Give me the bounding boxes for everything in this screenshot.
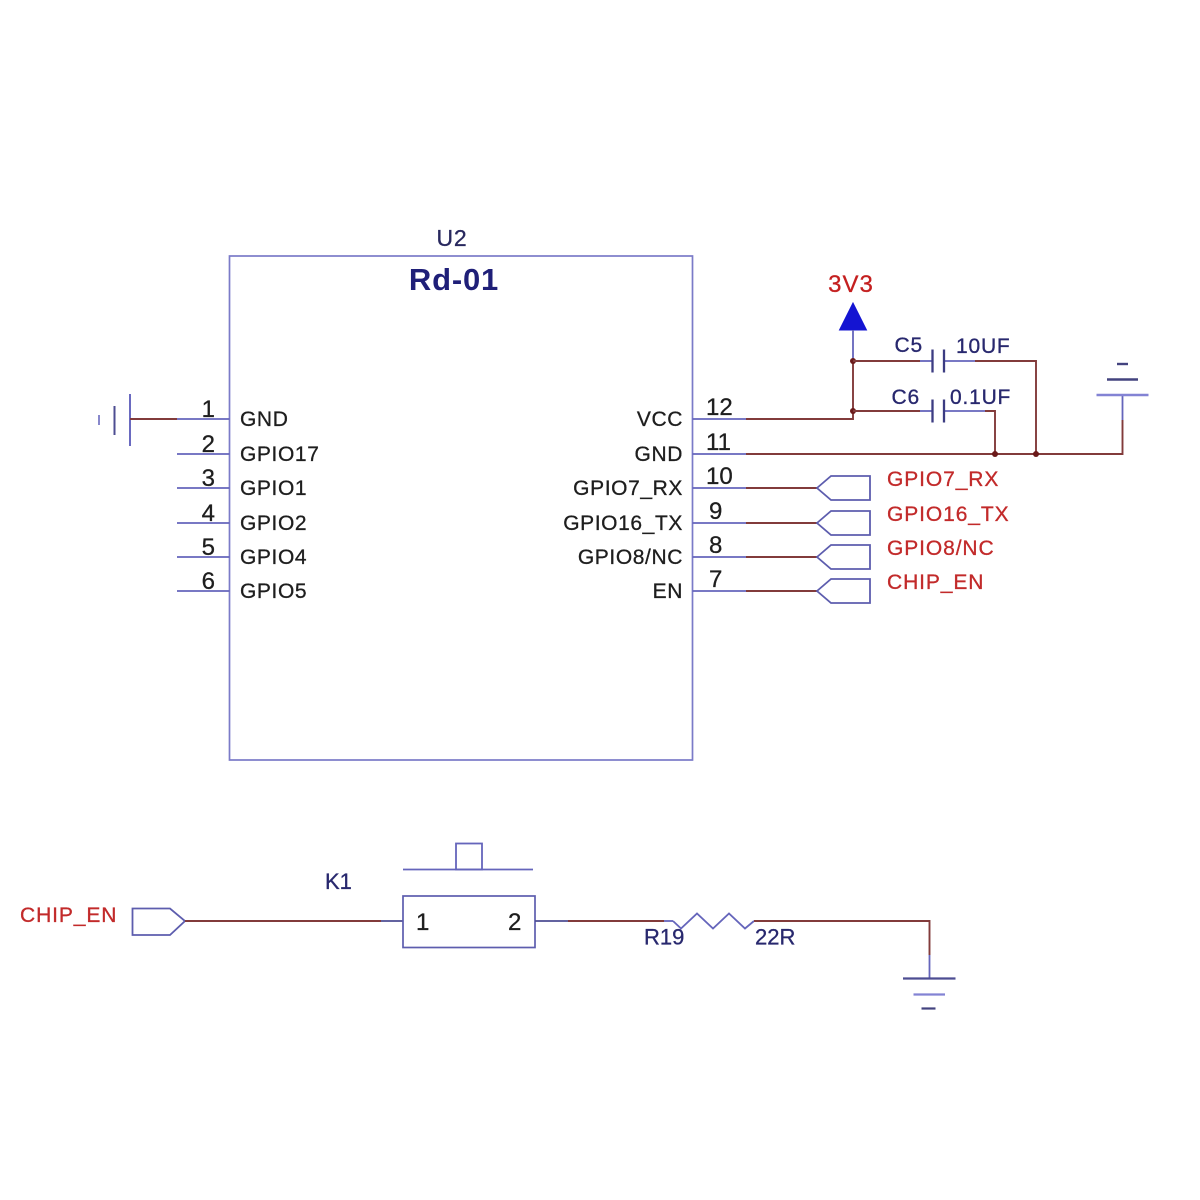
net flag GPIO16_TX: [817, 511, 870, 535]
capacitor C5 leads: [920, 360, 933, 362]
svg-text:8: 8: [709, 532, 722, 559]
wire pin 8 to flag: [746, 556, 817, 558]
wire pin 12 VCC to 3V3: [693, 418, 747, 420]
svg-text:GND: GND: [635, 443, 683, 466]
net flag GPIO8/NC: [817, 545, 870, 569]
svg-text:Rd-01: Rd-01: [409, 262, 499, 297]
pin 3 stub: [177, 487, 230, 489]
net flag CHIP_EN bottom: [133, 909, 186, 936]
power flag 3V3 stem: [852, 330, 854, 361]
svg-text:22R: 22R: [755, 925, 795, 950]
svg-text:10: 10: [706, 463, 733, 490]
svg-text:2: 2: [508, 909, 521, 936]
svg-text:5: 5: [202, 534, 215, 561]
pin 9 stub: [693, 522, 747, 524]
svg-text:GPIO2: GPIO2: [240, 512, 307, 535]
switch K1 actuator bar: [403, 869, 533, 871]
svg-text:GPIO7_RX: GPIO7_RX: [573, 477, 683, 500]
svg-text:0.1UF: 0.1UF: [950, 386, 1011, 409]
wire pin 10 to flag: [746, 487, 817, 489]
svg-text:GPIO17: GPIO17: [240, 443, 319, 466]
wire C6 junction to C6: [853, 410, 920, 412]
capacitor C6 leads: [920, 410, 933, 412]
svg-text:9: 9: [709, 498, 722, 525]
svg-text:U2: U2: [436, 225, 467, 251]
resistor R19 lead left: [664, 920, 673, 922]
svg-text:C5: C5: [895, 334, 923, 357]
svg-text:4: 4: [202, 500, 215, 527]
wire pin 7 to flag: [746, 590, 817, 592]
svg-text:GPIO1: GPIO1: [240, 477, 307, 500]
svg-text:3: 3: [202, 465, 215, 492]
svg-text:3V3: 3V3: [828, 271, 874, 298]
wire R19 to ground: [754, 921, 930, 955]
svg-text:6: 6: [202, 568, 215, 595]
pin 5 stub: [177, 556, 230, 558]
junction at 3V3 / C5: [850, 358, 856, 364]
svg-text:C6: C6: [892, 386, 920, 409]
svg-text:GPIO8/NC: GPIO8/NC: [887, 537, 995, 560]
junction C6 on GND bus: [992, 451, 998, 457]
wire C5 to GND bus: [975, 361, 1036, 454]
K1 pin 2 stub: [535, 920, 568, 922]
switch K1 button actuator: [456, 844, 482, 870]
switch K1 body: [403, 896, 535, 948]
svg-text:GPIO8/NC: GPIO8/NC: [578, 546, 683, 569]
svg-text:7: 7: [709, 566, 722, 593]
svg-text:1: 1: [416, 909, 429, 936]
svg-text:GND: GND: [240, 408, 288, 431]
svg-text:12: 12: [706, 394, 733, 421]
wire 3V3 junction to C5: [853, 360, 920, 362]
wire K1 to R19: [568, 920, 664, 922]
svg-text:GPIO16_TX: GPIO16_TX: [563, 512, 683, 535]
pin 8 stub: [693, 556, 747, 558]
junction C5 on GND bus: [1033, 451, 1039, 457]
wire pin 9 to flag: [746, 522, 817, 524]
svg-text:GPIO5: GPIO5: [240, 580, 307, 603]
junction at C6 branch: [850, 408, 856, 414]
svg-text:GPIO16_TX: GPIO16_TX: [887, 503, 1009, 526]
pin 10 stub: [693, 487, 747, 489]
wire GND bus pin 11 to right ground: [693, 453, 747, 455]
resistor R19 zigzag: [673, 914, 754, 929]
svg-text:10UF: 10UF: [956, 335, 1011, 358]
svg-text:GPIO7_RX: GPIO7_RX: [887, 468, 999, 491]
pin 2 stub: [177, 453, 230, 455]
svg-text:11: 11: [706, 429, 731, 456]
svg-text:1: 1: [202, 396, 215, 423]
ground symbol bottom right: [903, 955, 956, 1009]
svg-text:2: 2: [202, 431, 215, 458]
svg-text:CHIP_EN: CHIP_EN: [20, 904, 117, 927]
svg-text:EN: EN: [653, 580, 683, 603]
net flag CHIP_EN: [817, 579, 870, 603]
svg-text:VCC: VCC: [637, 408, 683, 431]
ground symbol top right (inverted): [1097, 364, 1149, 420]
IC U2 body: [230, 256, 693, 760]
svg-text:R19: R19: [644, 925, 684, 950]
pin 1 stub: [177, 418, 230, 420]
pin 6 stub: [177, 590, 230, 592]
K1 pin 1 stub: [381, 920, 403, 922]
ground symbol at pin 1 (left, rotated): [99, 394, 130, 446]
capacitor C6 plates: [931, 400, 933, 423]
capacitor C5 plates: [931, 350, 933, 373]
svg-text:K1: K1: [325, 869, 352, 894]
wire CHIP_EN flag to K1 pin 1: [185, 920, 381, 922]
svg-text:CHIP_EN: CHIP_EN: [887, 571, 984, 594]
pin 7 stub: [693, 590, 747, 592]
wire pin1 to ground: [130, 418, 177, 420]
power flag 3V3 triangle: [840, 303, 867, 330]
net flag GPIO7_RX: [817, 476, 870, 500]
pin 4 stub: [177, 522, 230, 524]
svg-text:GPIO4: GPIO4: [240, 546, 307, 569]
wire C6 to GND bus: [985, 411, 995, 454]
